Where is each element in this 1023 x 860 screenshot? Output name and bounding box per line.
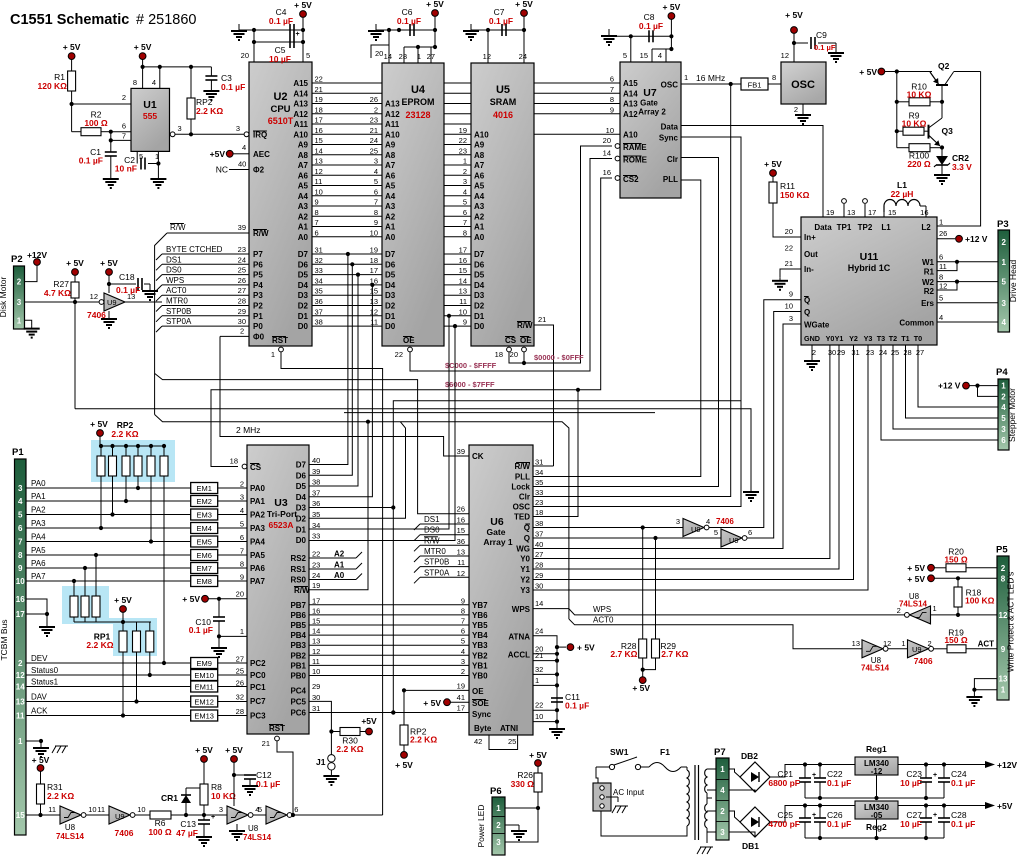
svg-text:EM2: EM2	[196, 497, 211, 506]
svg-text:2.2 KΩ: 2.2 KΩ	[336, 744, 363, 754]
svg-text:+5V: +5V	[361, 716, 377, 726]
wire U3 pin1	[219, 635, 247, 637]
svg-text:2: 2	[720, 807, 725, 816]
svg-text:A2: A2	[334, 550, 345, 559]
svg-text:29: 29	[535, 571, 543, 580]
svg-text:12: 12	[457, 569, 465, 578]
svg-text:7: 7	[122, 132, 126, 141]
ground at P1 pin17	[46, 624, 48, 627]
svg-text:$C000 - $FFFF: $C000 - $FFFF	[445, 361, 497, 370]
svg-text:YB1: YB1	[472, 661, 488, 670]
svg-text:23: 23	[459, 146, 467, 155]
svg-text:Y3: Y3	[864, 334, 873, 343]
svg-text:100 KΩ: 100 KΩ	[965, 596, 995, 606]
svg-text:SW1: SW1	[610, 747, 629, 757]
svg-text:Array 2: Array 2	[638, 108, 666, 117]
svg-text:OSC: OSC	[513, 503, 531, 512]
test point TP1	[843, 204, 845, 217]
svg-text:15: 15	[16, 811, 25, 820]
svg-text:7406: 7406	[716, 517, 734, 526]
svg-text:17: 17	[370, 266, 378, 275]
svg-text:23128: 23128	[405, 110, 430, 120]
svg-text:Y3: Y3	[520, 586, 530, 595]
svg-text:A11: A11	[294, 120, 309, 129]
svg-text:D1: D1	[474, 312, 485, 321]
svg-text:11: 11	[459, 297, 467, 306]
svg-text:+ 5V: + 5V	[907, 563, 925, 573]
svg-text:3: 3	[1002, 299, 1007, 308]
svg-text:+ 5V: + 5V	[195, 745, 213, 755]
svg-text:Common: Common	[899, 319, 934, 328]
svg-text:34: 34	[312, 521, 320, 530]
svg-text:C18: C18	[119, 272, 135, 282]
svg-text:14: 14	[16, 683, 25, 692]
svg-text:C1551 Schematic: C1551 Schematic	[10, 12, 129, 28]
svg-text:A3: A3	[474, 202, 485, 211]
svg-text:OE: OE	[472, 687, 484, 696]
wire reset line to vertical	[292, 814, 382, 816]
svg-text:27: 27	[535, 550, 543, 559]
ground in nest	[750, 489, 752, 492]
ground under third inverter	[236, 824, 238, 828]
svg-text:3: 3	[720, 828, 725, 837]
wire data bus U2 to U4	[312, 253, 382, 255]
svg-text:8: 8	[463, 228, 467, 237]
svg-text:NC: NC	[216, 165, 228, 175]
svg-text:A1: A1	[298, 223, 309, 232]
svg-text:D7: D7	[298, 250, 309, 259]
svg-text:Drive Head: Drive Head	[1008, 259, 1018, 302]
svg-text:PC2: PC2	[250, 659, 266, 668]
ground for C11	[556, 726, 558, 729]
svg-text:17: 17	[868, 208, 876, 217]
svg-text:A13: A13	[385, 100, 400, 109]
svg-text:RS0: RS0	[290, 576, 306, 585]
svg-text:6: 6	[294, 805, 298, 814]
svg-text:30: 30	[535, 582, 543, 591]
svg-text:3: 3	[178, 124, 182, 133]
svg-text:7406: 7406	[914, 656, 933, 666]
svg-text:16: 16	[315, 126, 323, 135]
wire Byte-ATNI bracket	[489, 735, 518, 750]
svg-text:24: 24	[519, 52, 527, 61]
svg-text:14: 14	[459, 276, 467, 285]
svg-text:U11: U11	[860, 251, 879, 263]
svg-text:Clr: Clr	[667, 155, 678, 164]
ground rail stage2	[805, 837, 944, 839]
svg-text:2.2 KΩ: 2.2 KΩ	[196, 106, 223, 116]
svg-text:+5V: +5V	[997, 801, 1013, 811]
svg-text:PB7: PB7	[290, 601, 306, 610]
wire U6 R/W31 to R/W net	[533, 465, 554, 467]
svg-text:YB7: YB7	[472, 601, 488, 610]
+12V arrow	[985, 761, 995, 768]
svg-text:P4: P4	[253, 281, 263, 290]
svg-text:Array 1: Array 1	[483, 537, 513, 547]
svg-text:8: 8	[939, 273, 943, 282]
capacitor C10	[218, 599, 220, 617]
svg-text:12: 12	[370, 307, 378, 316]
svg-text:YB5: YB5	[472, 621, 488, 630]
wire P7 to DB2	[729, 769, 740, 777]
svg-text:OSC: OSC	[661, 81, 679, 90]
resistor R9	[897, 130, 903, 132]
svg-text:8: 8	[610, 95, 614, 104]
svg-text:D4: D4	[385, 281, 396, 290]
svg-text:4: 4	[1001, 403, 1006, 412]
svg-text:Q: Q	[804, 296, 810, 305]
svg-text:39: 39	[457, 447, 465, 456]
wire Sync PC6 net	[309, 712, 469, 714]
svg-text:5: 5	[306, 51, 310, 60]
resistor R100	[897, 147, 909, 149]
svg-text:PA5: PA5	[31, 546, 46, 555]
power +5V at ACCL group	[555, 645, 559, 649]
svg-text:U9: U9	[107, 298, 117, 307]
svg-text:+ 5V: + 5V	[529, 750, 547, 760]
svg-text:D1: D1	[296, 525, 307, 534]
svg-text:10: 10	[785, 302, 793, 311]
wire U11 Common to P3	[937, 321, 998, 323]
wire ACT0 from U2 P3	[162, 294, 249, 296]
wire U6 Q to inverter U9 pin5-6	[533, 537, 721, 539]
svg-text:35: 35	[535, 478, 543, 487]
svg-text:# 251860: # 251860	[136, 12, 196, 28]
svg-text:A4: A4	[298, 192, 309, 201]
svg-text:Out: Out	[804, 250, 818, 259]
svg-text:RST: RST	[269, 724, 285, 733]
svg-text:13: 13	[457, 548, 465, 557]
svg-text:D0: D0	[296, 536, 307, 545]
ground rail stage1	[805, 797, 944, 799]
svg-text:4700 pF: 4700 pF	[768, 819, 800, 829]
svg-text:DS0: DS0	[166, 266, 182, 275]
svg-text:5: 5	[623, 51, 627, 60]
svg-text:D5: D5	[298, 271, 309, 280]
svg-text:Write Protect & ACT LED's: Write Protect & ACT LED's	[1006, 572, 1016, 673]
svg-text:STP0B: STP0B	[166, 307, 191, 316]
svg-text:A7: A7	[474, 161, 485, 170]
svg-text:33: 33	[535, 488, 543, 497]
capacitor C22	[819, 765, 821, 779]
wire U3 pin20 +5V and C10	[205, 598, 247, 600]
svg-text:13: 13	[16, 698, 25, 707]
svg-text:23: 23	[370, 116, 378, 125]
svg-text:PC6: PC6	[290, 709, 306, 718]
svg-text:10 KΩ: 10 KΩ	[902, 118, 927, 128]
svg-text:10 KΩ: 10 KΩ	[211, 791, 236, 801]
svg-text:24: 24	[312, 571, 320, 580]
svg-text:+: +	[933, 772, 937, 779]
svg-text:Byte: Byte	[474, 724, 492, 733]
svg-text:RS2: RS2	[290, 554, 306, 563]
svg-text:STP0A: STP0A	[424, 568, 450, 577]
svg-text:OSC: OSC	[791, 79, 815, 91]
svg-text:PA3: PA3	[31, 519, 46, 528]
capacitor C12	[234, 774, 248, 776]
wire U6 Y3 to U11	[533, 345, 868, 590]
svg-text:A3: A3	[298, 202, 309, 211]
svg-text:U9: U9	[691, 525, 701, 534]
wire R/W from U2	[167, 232, 249, 234]
svg-text:Y2: Y2	[849, 334, 858, 343]
RP1 pack resistors upper	[73, 581, 75, 596]
svg-text:0.1 µF: 0.1 µF	[639, 21, 663, 31]
svg-text:PC4: PC4	[290, 686, 306, 695]
transformer secondary	[705, 769, 707, 793]
svg-text:5: 5	[240, 520, 244, 529]
svg-text:0.1 µF: 0.1 µF	[814, 43, 836, 52]
EM filters EM1-EM8	[191, 483, 218, 494]
svg-text:23: 23	[238, 245, 246, 254]
svg-text:+ 5V: + 5V	[66, 258, 84, 268]
svg-text:D2: D2	[474, 302, 485, 311]
RP2 resistor pack highlight	[91, 440, 175, 482]
svg-text:150 Ω: 150 Ω	[944, 635, 968, 645]
svg-text:6: 6	[939, 253, 943, 262]
wire U6 WG to U11 WGate	[533, 324, 801, 549]
svg-text:2: 2	[122, 93, 126, 102]
svg-text:+ 5V: + 5V	[785, 10, 803, 20]
svg-text:2.7 KΩ: 2.7 KΩ	[610, 649, 637, 659]
svg-text:7: 7	[374, 198, 378, 207]
svg-text:9: 9	[240, 573, 244, 582]
svg-text:4: 4	[658, 51, 662, 60]
svg-text:24: 24	[370, 136, 378, 145]
svg-text:T1: T1	[901, 334, 909, 343]
svg-text:+ 5V: + 5V	[32, 755, 50, 765]
svg-text:8: 8	[461, 606, 465, 615]
ground at U11 In-	[779, 278, 781, 281]
svg-text:A2: A2	[298, 212, 309, 221]
svg-text:ACT0: ACT0	[593, 615, 614, 624]
svg-text:T2: T2	[889, 334, 897, 343]
svg-text:2.2 KΩ: 2.2 KΩ	[111, 429, 138, 439]
svg-text:R2: R2	[924, 287, 935, 296]
svg-text:A0: A0	[474, 233, 485, 242]
svg-text:A5: A5	[298, 182, 309, 191]
svg-text:A10: A10	[623, 130, 638, 139]
svg-text:35: 35	[312, 510, 320, 519]
wire P1 pin1 ground	[26, 740, 41, 742]
svg-text:26: 26	[457, 505, 465, 514]
svg-text:+ 5V: + 5V	[859, 67, 877, 77]
wire 16MHz to U6 Clr	[533, 84, 731, 497]
svg-text:120 KΩ: 120 KΩ	[38, 81, 68, 91]
svg-text:2: 2	[463, 167, 467, 176]
svg-text:1: 1	[684, 73, 688, 82]
svg-text:U5: U5	[496, 84, 510, 96]
svg-text:Q3: Q3	[942, 126, 954, 136]
wire U6 Y1 to U11	[533, 345, 839, 569]
svg-text:14: 14	[603, 149, 611, 158]
U2 bypass caps C4 C5	[238, 28, 240, 31]
resistor R29 pullup	[655, 538, 657, 639]
svg-text:20: 20	[603, 136, 611, 145]
svg-text:10: 10	[315, 187, 323, 196]
svg-text:WGate: WGate	[804, 321, 830, 330]
svg-text:PA2: PA2	[250, 511, 266, 520]
svg-text:4: 4	[374, 167, 378, 176]
svg-text:28: 28	[236, 707, 244, 716]
wire U11 In- to ground	[780, 269, 801, 278]
svg-text:27: 27	[916, 348, 924, 357]
wire P1 pin16 pin17 ground	[26, 599, 47, 614]
svg-text:25: 25	[508, 737, 516, 746]
svg-text:2.2 KΩ: 2.2 KΩ	[47, 791, 74, 801]
svg-text:2.2 KΩ: 2.2 KΩ	[410, 735, 437, 745]
ground for U1 pin1	[157, 176, 159, 179]
svg-text:Clr: Clr	[519, 493, 530, 502]
wire P1 pin15 reset line	[26, 814, 60, 816]
svg-text:A12: A12	[385, 110, 400, 119]
svg-text:PA5: PA5	[250, 551, 266, 560]
svg-text:PLL: PLL	[663, 175, 678, 184]
svg-text:1: 1	[17, 316, 22, 325]
svg-text:P3: P3	[997, 219, 1009, 230]
svg-text:38: 38	[535, 519, 543, 528]
svg-text:1: 1	[933, 604, 937, 613]
wire U11 T1 to P4	[906, 345, 999, 418]
svg-text:1: 1	[901, 639, 905, 648]
svg-text:2: 2	[496, 821, 501, 830]
connector P5 Write Protect ACT LEDs	[997, 556, 1009, 700]
svg-text:DB1: DB1	[742, 841, 759, 851]
U4 pin20 jog	[371, 45, 389, 58]
wire DS1 from U2 P6	[162, 263, 249, 265]
svg-text:22: 22	[785, 244, 793, 253]
svg-text:26: 26	[370, 95, 378, 104]
svg-text:2: 2	[897, 606, 901, 615]
svg-text:A4: A4	[385, 192, 396, 201]
svg-text:A0: A0	[334, 571, 345, 580]
svg-text:D5: D5	[385, 271, 396, 280]
svg-text:21: 21	[262, 739, 270, 748]
svg-text:8: 8	[772, 73, 776, 82]
svg-text:A6: A6	[298, 171, 309, 180]
svg-text:27: 27	[236, 655, 244, 664]
svg-text:U3: U3	[274, 497, 288, 509]
svg-text:6: 6	[463, 208, 467, 217]
svg-text:D6: D6	[385, 260, 396, 269]
svg-text:4: 4	[463, 187, 467, 196]
svg-text:P5: P5	[996, 545, 1008, 556]
svg-text:A6: A6	[385, 171, 396, 180]
svg-text:25: 25	[891, 348, 899, 357]
svg-text:+ 5V: + 5V	[395, 760, 413, 770]
wire 2MHz net	[220, 336, 469, 456]
svg-text:$0000 - $0FFF: $0000 - $0FFF	[534, 353, 584, 362]
svg-text:D2: D2	[385, 302, 396, 311]
resistor R30	[340, 728, 360, 736]
wire PC6 to reset riser	[391, 710, 395, 714]
wire DS0 from U2 P5	[162, 274, 249, 276]
ground at P5	[973, 694, 975, 697]
svg-text:A10: A10	[293, 130, 308, 139]
svg-text:EM12: EM12	[194, 698, 214, 707]
svg-text:6: 6	[374, 187, 378, 196]
ground at P6 pin2	[518, 828, 520, 831]
svg-text:D0: D0	[385, 322, 396, 331]
svg-text:Φ0: Φ0	[253, 333, 265, 342]
wire U11 Ers to P3	[937, 302, 998, 304]
svg-text:6: 6	[461, 627, 465, 636]
svg-text:P2: P2	[11, 254, 23, 265]
svg-text:A5: A5	[474, 182, 485, 191]
svg-text:18: 18	[230, 457, 238, 466]
svg-text:0.1 µF: 0.1 µF	[79, 156, 103, 166]
svg-text:17: 17	[459, 246, 467, 255]
ground at P2 pin1	[31, 326, 33, 329]
svg-text:25: 25	[370, 146, 378, 155]
svg-text:J1: J1	[316, 757, 326, 767]
svg-text:A4: A4	[474, 192, 485, 201]
svg-text:38: 38	[315, 318, 323, 327]
svg-text:22 µH: 22 µH	[891, 189, 914, 199]
svg-text:29: 29	[312, 682, 320, 691]
svg-text:P1: P1	[253, 312, 263, 321]
svg-text:CR1: CR1	[161, 793, 178, 803]
svg-text:+ 5V: + 5V	[182, 594, 200, 604]
svg-text:PC5: PC5	[290, 697, 306, 706]
svg-text:EM1: EM1	[196, 484, 211, 493]
svg-text:2: 2	[1001, 564, 1006, 573]
svg-text:4.7 KΩ: 4.7 KΩ	[44, 288, 71, 298]
svg-text:Status0: Status0	[31, 666, 59, 675]
svg-text:+12 V: +12 V	[938, 381, 961, 391]
svg-text:74LS14: 74LS14	[899, 600, 928, 609]
svg-text:A5: A5	[385, 182, 396, 191]
svg-text:D5: D5	[296, 482, 307, 491]
IC U3 Tri-Port 6523A	[247, 445, 309, 734]
svg-text:11: 11	[48, 805, 56, 814]
svg-text:L1: L1	[881, 223, 891, 232]
wires P1 bus control to EM9-EM13	[26, 662, 191, 664]
IC U5 SRAM 4016	[471, 63, 534, 346]
U5 bypass cap C7	[470, 28, 472, 31]
svg-text:2.2 KΩ: 2.2 KΩ	[86, 640, 113, 650]
svg-text:6800 pF: 6800 pF	[768, 778, 800, 788]
svg-text:P3: P3	[253, 291, 263, 300]
wire CS2 select $6000-$7FFF	[211, 178, 612, 467]
svg-text:3: 3	[1001, 425, 1006, 434]
svg-text:9: 9	[374, 218, 378, 227]
wire P5 pins 13 1 ground	[974, 679, 997, 690]
wire Phi0 pin2	[220, 335, 249, 337]
wire U2 RST net	[279, 347, 284, 352]
svg-text:+ 5V: + 5V	[63, 42, 81, 52]
U4 bypass cap C6	[375, 28, 377, 31]
svg-text:9: 9	[610, 105, 614, 114]
svg-text:28: 28	[399, 52, 407, 61]
svg-text:1: 1	[939, 218, 943, 227]
svg-text:A13: A13	[293, 100, 308, 109]
svg-text:13: 13	[847, 208, 855, 217]
chassis ground at AC input	[612, 806, 616, 813]
wire U6 Qbar to inverter U9 and U11	[533, 527, 683, 529]
svg-text:T3: T3	[877, 334, 885, 343]
svg-text:Hybrid 1C: Hybrid 1C	[848, 263, 891, 273]
U11 GND pin to ground	[811, 345, 813, 358]
svg-text:4: 4	[18, 497, 23, 506]
svg-text:1: 1	[1001, 686, 1006, 695]
svg-text:19: 19	[457, 682, 465, 691]
svg-text:12: 12	[781, 51, 789, 60]
svg-text:F1: F1	[660, 747, 670, 757]
svg-text:+ 5V: + 5V	[426, 0, 444, 9]
svg-text:21: 21	[315, 85, 323, 94]
svg-text:+ 5V: + 5V	[663, 2, 681, 12]
